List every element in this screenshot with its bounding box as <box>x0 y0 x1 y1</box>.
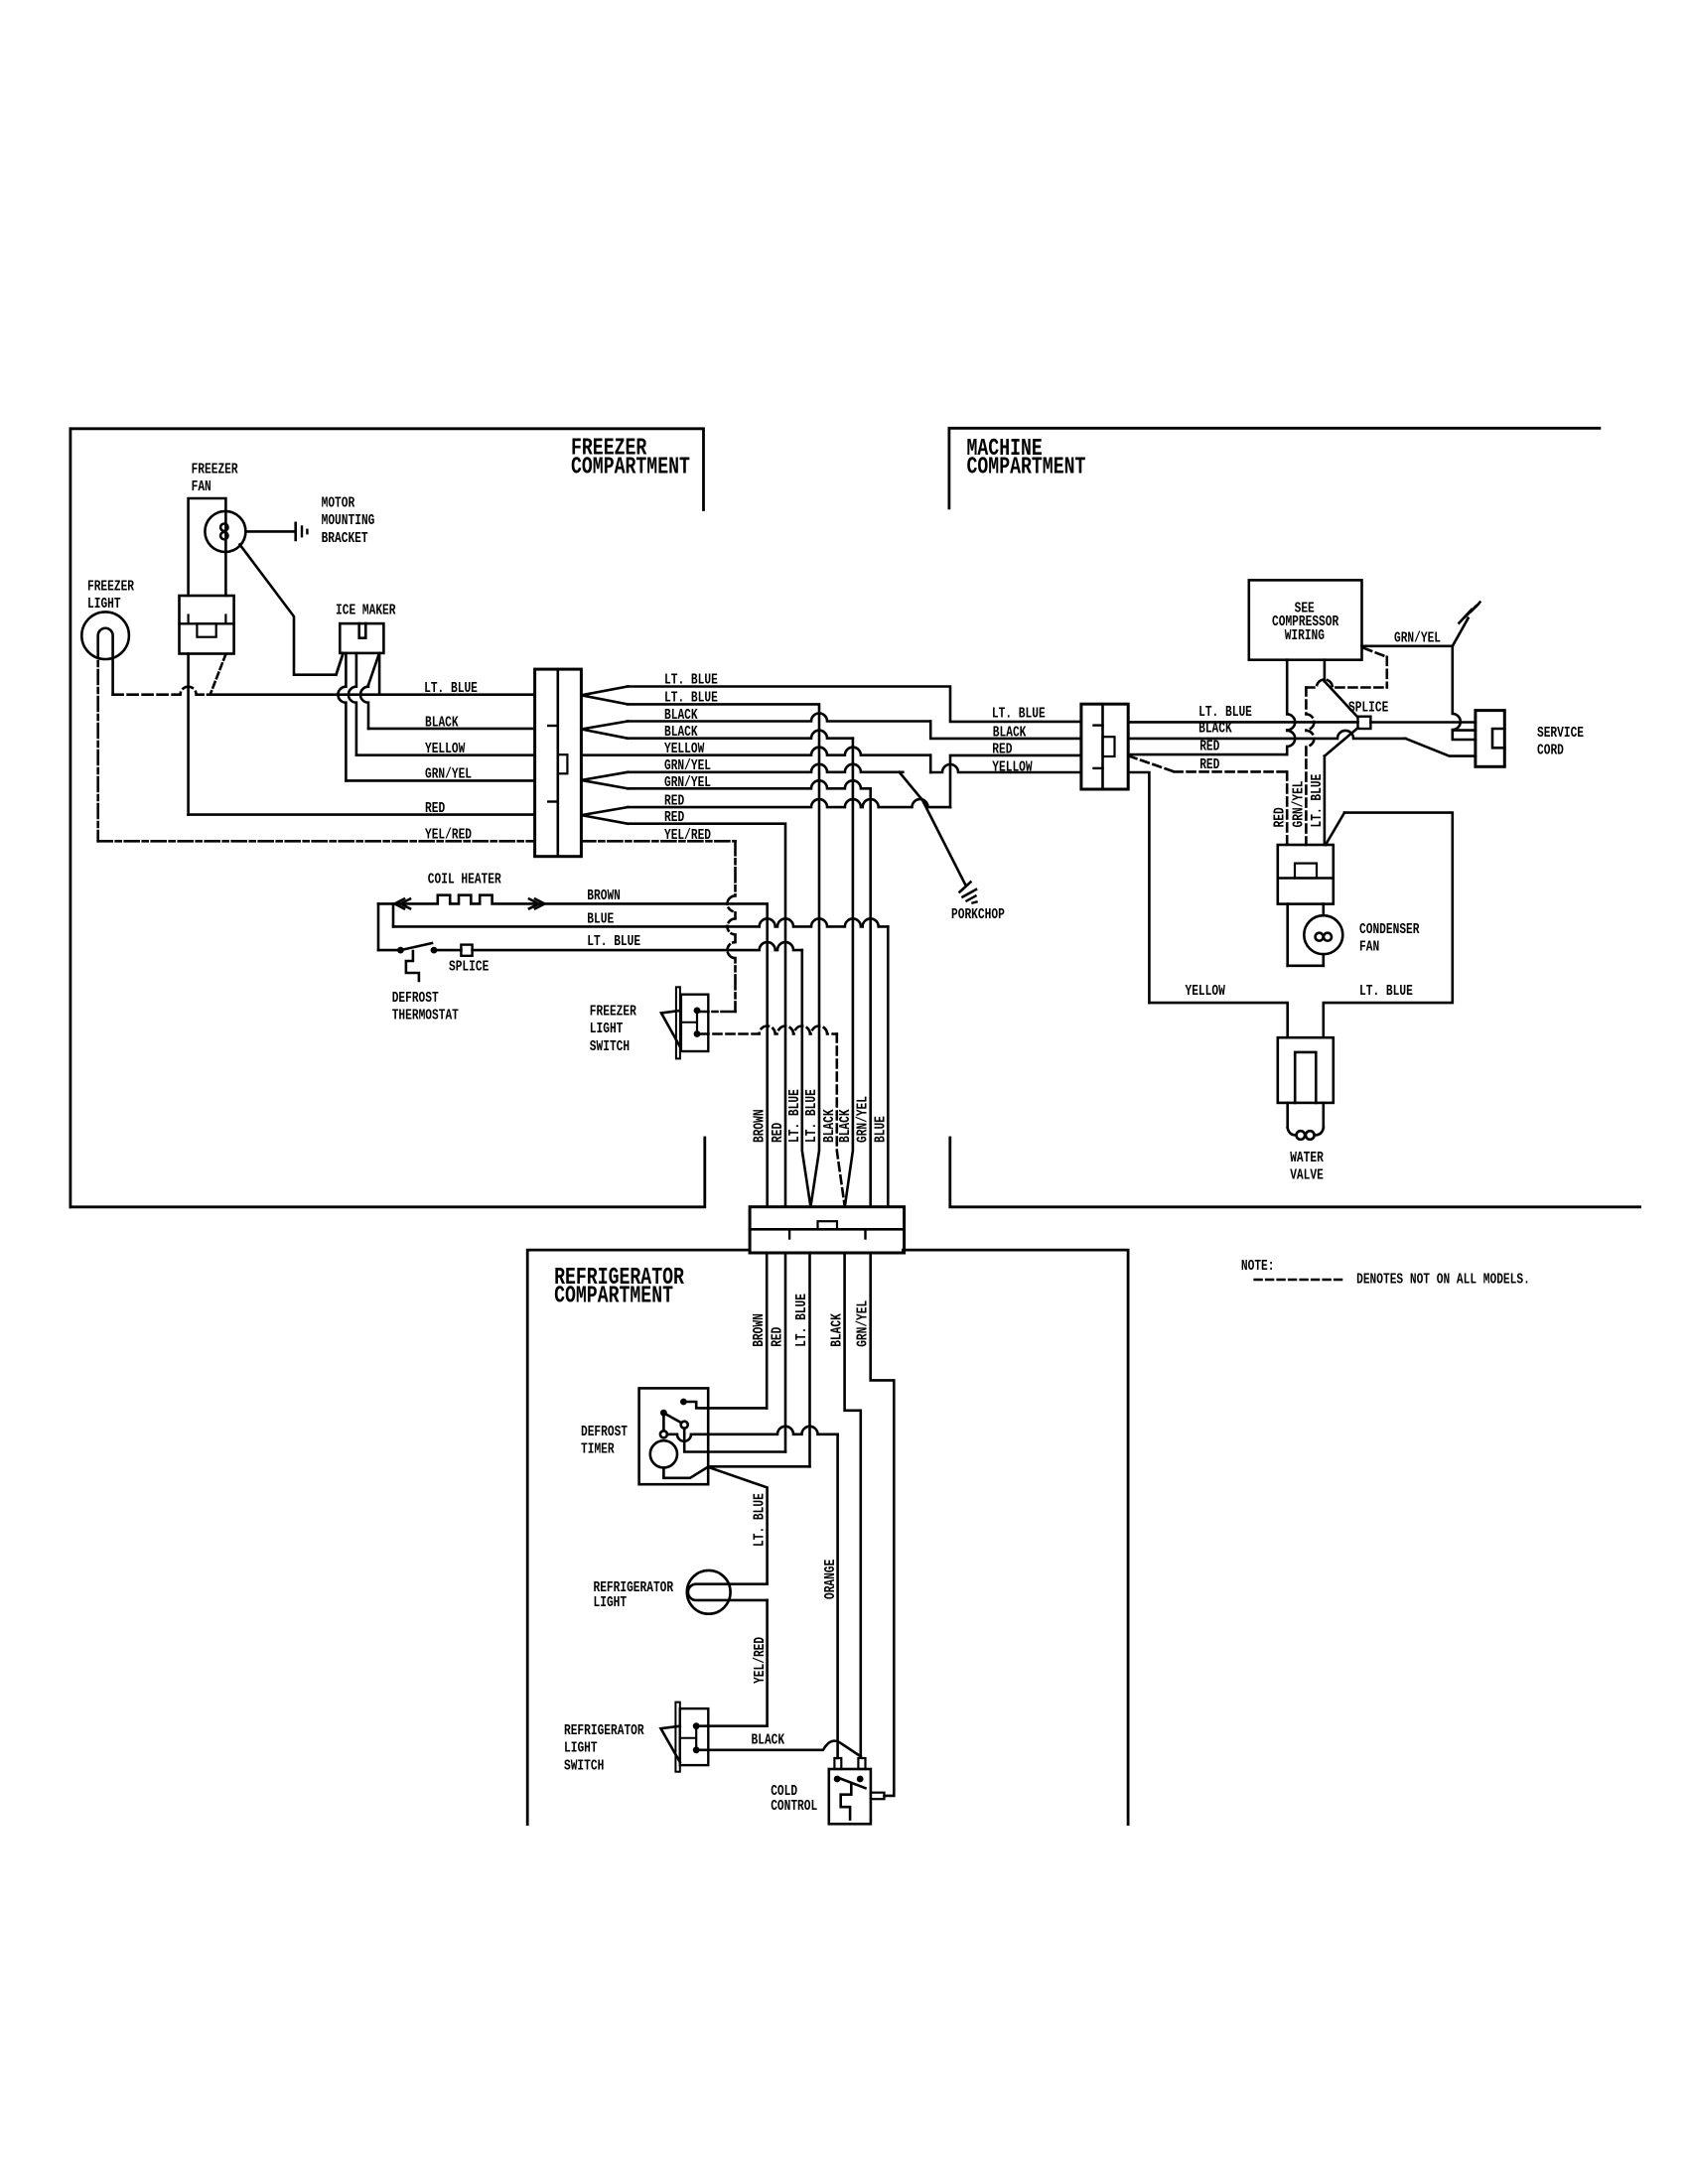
water valve coil <box>1286 1103 1289 1128</box>
svg-text:YELLOW: YELLOW <box>425 741 465 757</box>
svg-text:YEL/RED: YEL/RED <box>425 827 472 844</box>
svg-text:YEL/RED: YEL/RED <box>664 827 711 844</box>
svg-text:FREEZER: FREEZER <box>192 461 238 478</box>
wire LT. BLUE compressor pin to splice <box>1324 660 1327 682</box>
svg-text:REFRIGERATOR: REFRIGERATOR <box>564 1722 644 1739</box>
ice maker pin 1 <box>337 653 344 675</box>
wire RED end at timer <box>684 1429 785 1452</box>
svg-text:DEFROST: DEFROST <box>581 1424 628 1440</box>
svg-text:RED: RED <box>770 1327 786 1347</box>
wire GRN/YEL <box>871 1253 895 1796</box>
svg-text:MOUNTING: MOUNTING <box>322 512 375 529</box>
motor mounting bracket ground <box>294 523 297 540</box>
svg-text:COMPARTMENT: COMPARTMENT <box>967 454 1086 480</box>
svg-text:COMPARTMENT: COMPARTMENT <box>554 1284 673 1310</box>
wire LT. BLUE freezer main <box>113 687 208 695</box>
svg-text:GRN/YEL: GRN/YEL <box>425 766 472 783</box>
svg-text:LT. BLUE: LT. BLUE <box>1359 983 1413 1000</box>
svg-text:LT. BLUE: LT. BLUE <box>424 680 478 697</box>
svg-text:WATER: WATER <box>1290 1150 1324 1166</box>
wire BLACK to machine connector <box>628 714 930 722</box>
svg-text:BLACK: BLACK <box>752 1731 785 1748</box>
freezer light switch <box>676 987 680 1058</box>
svg-text:LIGHT: LIGHT <box>87 596 121 613</box>
freezer light <box>81 612 129 659</box>
wire YEL/RED light to switch <box>701 1600 768 1726</box>
wire LT. BLUE to splice <box>1128 721 1357 724</box>
wire BLACK to bundle <box>628 731 853 739</box>
svg-text:FREEZER: FREEZER <box>590 1003 636 1020</box>
wire BROWN <box>766 1253 769 1408</box>
wire LT. BLUE to timer <box>708 1465 809 1468</box>
wire RED to machine connector <box>628 799 950 807</box>
water valve <box>1278 1037 1334 1103</box>
svg-text:DEFROST: DEFROST <box>392 990 439 1007</box>
svg-text:BROWN: BROWN <box>751 1313 768 1347</box>
svg-text:YELLOW: YELLOW <box>992 759 1032 776</box>
wire GRN/YEL to bundle <box>628 780 871 788</box>
svg-text:SWITCH: SWITCH <box>590 1038 630 1055</box>
svg-text:LT. BLUE: LT. BLUE <box>752 1493 769 1547</box>
ice maker pin 3 / wire YELLOW <box>349 653 356 755</box>
wire GRN/YEL to porkchop <box>628 764 903 772</box>
svg-text:SPLICE: SPLICE <box>449 959 489 976</box>
compressor connector <box>1278 845 1334 904</box>
wire RED to compressor <box>1128 753 1287 756</box>
svg-text:YEL/RED: YEL/RED <box>752 1637 769 1684</box>
see compressor wiring box <box>1249 580 1362 659</box>
freezer fan motor <box>205 511 245 552</box>
svg-text:NOTE:: NOTE: <box>1241 1258 1275 1275</box>
svg-text:WIRING: WIRING <box>1285 627 1325 644</box>
svg-text:VALVE: VALVE <box>1290 1166 1324 1183</box>
svg-text:GRN/YEL: GRN/YEL <box>1394 630 1441 647</box>
defrost timer <box>639 1388 709 1484</box>
wire RED pair arrow <box>581 807 628 824</box>
wire fan to motor mounting bracket <box>245 530 294 533</box>
wire BLACK <box>845 1253 861 1756</box>
svg-text:BLACK: BLACK <box>821 1109 838 1143</box>
freezer fan connector <box>180 596 234 654</box>
svg-text:TIMER: TIMER <box>581 1441 615 1458</box>
svg-text:LIGHT: LIGHT <box>564 1740 598 1757</box>
svg-text:RED: RED <box>1199 739 1219 755</box>
wire LT. BLUE to bundle <box>628 704 819 1206</box>
svg-text:LIGHT: LIGHT <box>594 1594 628 1611</box>
svg-text:CONDENSER: CONDENSER <box>1359 921 1420 938</box>
svg-text:BROWN: BROWN <box>587 887 621 904</box>
wire RED dashed <box>1129 756 1175 772</box>
refrigerator light <box>687 1570 731 1614</box>
svg-text:LT. BLUE: LT. BLUE <box>793 1294 810 1347</box>
svg-text:THERMOSTAT: THERMOSTAT <box>392 1008 459 1024</box>
svg-text:BLACK: BLACK <box>993 725 1027 742</box>
svg-text:BLUE: BLUE <box>587 911 614 928</box>
ice maker <box>340 623 383 653</box>
ice maker pin 2 / wire GRN/YEL <box>338 653 346 781</box>
wire YEL/RED dashed to freezer light switch <box>581 840 735 843</box>
svg-text:CORD: CORD <box>1537 743 1564 759</box>
wire LT. BLUE pair arrow <box>581 687 628 705</box>
wire LT. BLUE <box>808 1253 811 1466</box>
svg-text:BLACK: BLACK <box>828 1313 845 1347</box>
refrigerator light switch <box>675 1703 679 1772</box>
wire YELLOW bottom loop <box>1149 1003 1287 1037</box>
freezer fan frame <box>189 498 226 596</box>
coil heater arrows <box>395 899 411 909</box>
svg-text:LT. BLUE: LT. BLUE <box>786 1089 803 1143</box>
splice <box>1358 717 1371 729</box>
svg-text:BROWN: BROWN <box>752 1109 769 1143</box>
svg-text:YELLOW: YELLOW <box>1186 983 1225 1000</box>
svg-text:CONTROL: CONTROL <box>771 1798 817 1815</box>
condenser fan <box>1304 915 1342 954</box>
svg-text:GRN/YEL: GRN/YEL <box>855 1096 872 1143</box>
wire LT. BLUE to bundle <box>473 942 802 950</box>
svg-text:MOTOR: MOTOR <box>322 495 355 512</box>
svg-text:LT. BLUE: LT. BLUE <box>1198 704 1252 721</box>
svg-text:LIGHT: LIGHT <box>590 1021 624 1037</box>
svg-text:BLUE: BLUE <box>872 1116 889 1143</box>
wire RED to bundle <box>628 824 785 1207</box>
wire RED <box>784 1253 787 1452</box>
wire splice to service cord <box>1370 721 1476 724</box>
svg-text:PORKCHOP: PORKCHOP <box>951 906 1005 923</box>
wire ORANGE from timer <box>667 1434 691 1441</box>
svg-text:RED: RED <box>425 800 445 817</box>
svg-text:LT. BLUE: LT. BLUE <box>803 1089 820 1143</box>
freezer fan connector left pin / wire RED <box>187 654 190 815</box>
svg-text:FAN: FAN <box>192 478 211 495</box>
svg-text:RED: RED <box>770 1123 786 1143</box>
defrost thermostat <box>397 947 404 954</box>
porkchop ground <box>960 883 971 892</box>
svg-text:GRN/YEL: GRN/YEL <box>854 1300 871 1347</box>
svg-text:LT. BLUE: LT. BLUE <box>1309 774 1326 828</box>
wire GRN/YEL dashed from box <box>1364 648 1387 657</box>
svg-text:RED: RED <box>992 742 1012 758</box>
defrost timer motor <box>650 1440 677 1467</box>
svg-text:LT. BLUE: LT. BLUE <box>587 933 640 950</box>
wire fan motor to ice maker <box>240 545 344 675</box>
cold control <box>829 1769 871 1824</box>
svg-text:ICE MAKER: ICE MAKER <box>336 602 396 618</box>
wire YEL/RED freezer (dashed) <box>96 643 99 841</box>
svg-text:LT. BLUE: LT. BLUE <box>992 706 1046 723</box>
svg-text:BLACK: BLACK <box>837 1109 854 1143</box>
wire LT. BLUE timer to refrigerator light <box>708 1467 767 1584</box>
ground (service) <box>1460 610 1473 623</box>
splice (coil heater) <box>434 949 461 952</box>
svg-text:GRN/YEL: GRN/YEL <box>1291 781 1308 828</box>
svg-text:FREEZER: FREEZER <box>87 578 134 595</box>
svg-text:SPLICE: SPLICE <box>1348 700 1388 717</box>
refrigerator compartment border <box>527 1250 748 1825</box>
svg-text:SWITCH: SWITCH <box>564 1757 604 1774</box>
svg-text:FAN: FAN <box>1359 938 1379 955</box>
machine compartment connector <box>1081 704 1128 789</box>
service cord plug <box>1476 711 1504 767</box>
wire BLACK to service cord <box>1128 731 1405 739</box>
wire GRN/YEL pair arrow <box>581 772 628 789</box>
svg-text:RED: RED <box>1272 807 1289 827</box>
machine compartment border <box>949 428 1600 508</box>
ice maker pin 5 <box>378 653 381 695</box>
svg-text:ORANGE: ORANGE <box>822 1560 839 1599</box>
svg-text:SERVICE: SERVICE <box>1537 725 1584 742</box>
freezer compartment connector <box>535 669 582 857</box>
svg-text:DENOTES NOT ON ALL MODELS.: DENOTES NOT ON ALL MODELS. <box>1356 1272 1530 1289</box>
svg-text:COMPARTMENT: COMPARTMENT <box>571 454 690 480</box>
freezer fan connector right pin (dashed) <box>211 654 226 694</box>
svg-text:BRACKET: BRACKET <box>322 530 368 547</box>
wire GRN/YEL down to plug tab <box>1453 646 1461 731</box>
svg-text:COIL HEATER: COIL HEATER <box>428 872 501 888</box>
ice maker pin 4 / wire BLACK <box>368 654 379 685</box>
compressor connector pins loop <box>1286 904 1289 966</box>
refrigerator compartment connector <box>750 1207 905 1253</box>
freezer compartment border <box>70 429 704 1207</box>
wire BLACK dashed (switch to bundle) <box>696 1032 699 1035</box>
svg-text:BLACK: BLACK <box>425 714 459 731</box>
wire YELLOW down <box>1128 772 1149 1003</box>
wire BLACK pair arrow <box>581 722 628 739</box>
wire LT. BLUE to machine connector <box>628 687 1081 722</box>
